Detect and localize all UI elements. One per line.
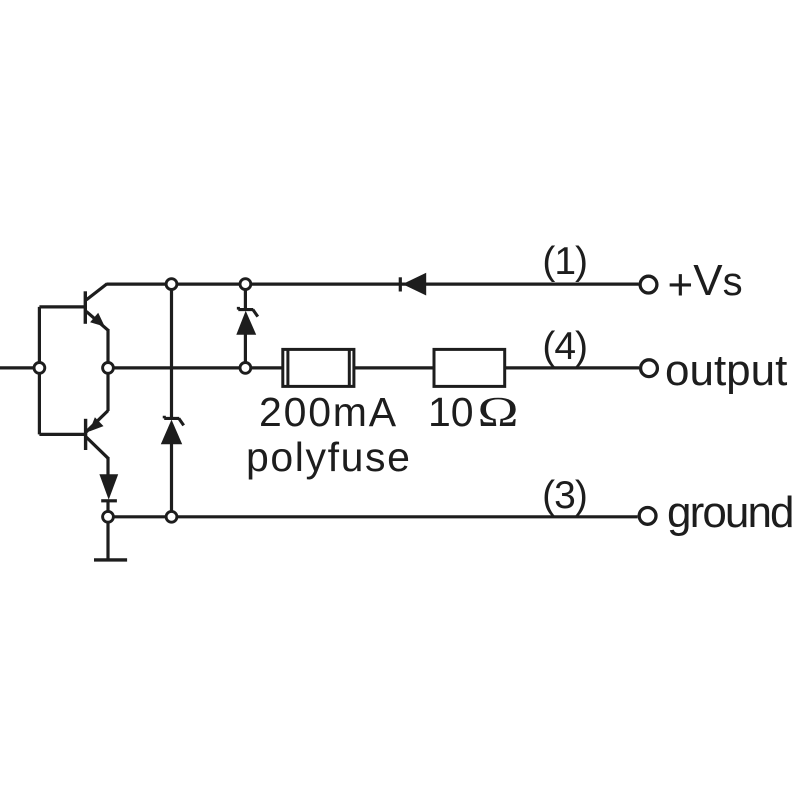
terminal circle pin 3 ground	[639, 508, 656, 525]
wire zener Z1 vertical lower segment	[244, 334, 247, 368]
node circle ground / diode D2	[103, 511, 114, 522]
wire Q1 base lead	[39, 305, 84, 308]
wire Q1 emitter diagonal	[86, 311, 108, 330]
svg-text:(4): (4)	[542, 325, 587, 368]
wire Q2 collector vertical to diode	[106, 457, 109, 475]
node circle input / base bus	[34, 363, 45, 374]
wire left base bus vertical	[38, 307, 41, 435]
wire zener Z1 vertical upper segment	[244, 284, 247, 309]
svg-text:polyfuse: polyfuse	[246, 434, 412, 480]
svg-text:ground: ground	[667, 488, 793, 537]
wire top rail (+Vs rail)	[106, 283, 638, 286]
wire node to Q2 emitter vertical	[106, 368, 109, 411]
svg-text:(1): (1)	[542, 240, 587, 283]
wire output rail (middle)	[108, 366, 639, 369]
svg-text:output: output	[665, 346, 787, 395]
polyfuse F1 right end cap	[348, 349, 351, 387]
node circle emitters / output	[103, 363, 114, 374]
wire ground rail	[108, 515, 638, 518]
transistor Q1 base bar	[84, 291, 87, 324]
wire input lead left	[0, 366, 39, 369]
wire zener Z2 vertical upper segment	[170, 284, 173, 417]
polyfuse F1 left end cap	[286, 349, 289, 387]
transistor Q2 emitter arrow	[89, 417, 103, 431]
wire Q2 emitter diagonal	[86, 411, 108, 432]
diode D2 triangle (below Q2)	[99, 474, 118, 500]
svg-text:10: 10	[428, 389, 474, 435]
svg-text:Ω: Ω	[478, 388, 519, 435]
terminal circle pin 1 +Vs	[640, 276, 657, 293]
node circle top rail / zener Z1	[240, 279, 251, 290]
wire Q1 emitter vertical to node	[106, 329, 109, 368]
node circle ground / zener Z2	[166, 511, 177, 522]
zener Z1 cathode bar with ticks	[238, 307, 257, 317]
wire diode D2 to ground node	[106, 501, 109, 517]
svg-text:+Vs: +Vs	[668, 256, 743, 309]
terminal circle pin 4 output	[641, 360, 658, 377]
svg-text:(3): (3)	[542, 474, 587, 517]
diode D2 cathode bar	[101, 499, 117, 502]
resistor R1 body (10 ohm)	[434, 349, 505, 386]
zener Z2 cathode bar with ticks	[164, 416, 184, 426]
wire Q2 collector diagonal	[86, 437, 108, 458]
wire Q1 collector diagonal to top rail	[86, 284, 107, 300]
zener Z2 triangle	[161, 420, 182, 445]
wire ground stub	[106, 517, 109, 560]
transistor Q1 emitter arrow	[90, 313, 105, 327]
transistor Q2 base bar	[84, 419, 87, 450]
node circle top rail / zener Z2	[166, 279, 177, 290]
wire Q2 base lead	[39, 433, 84, 436]
diode D1 triangle	[403, 273, 427, 296]
node circle zener Z1 / output rail	[240, 363, 251, 374]
zener Z1 triangle	[236, 311, 256, 335]
diode D1 cathode bar (top rail)	[399, 277, 402, 291]
svg-text:200mA: 200mA	[259, 389, 398, 435]
polyfuse F1 body	[283, 349, 354, 386]
ground symbol bar	[94, 558, 127, 561]
wire zener Z2 vertical lower segment	[170, 444, 173, 517]
